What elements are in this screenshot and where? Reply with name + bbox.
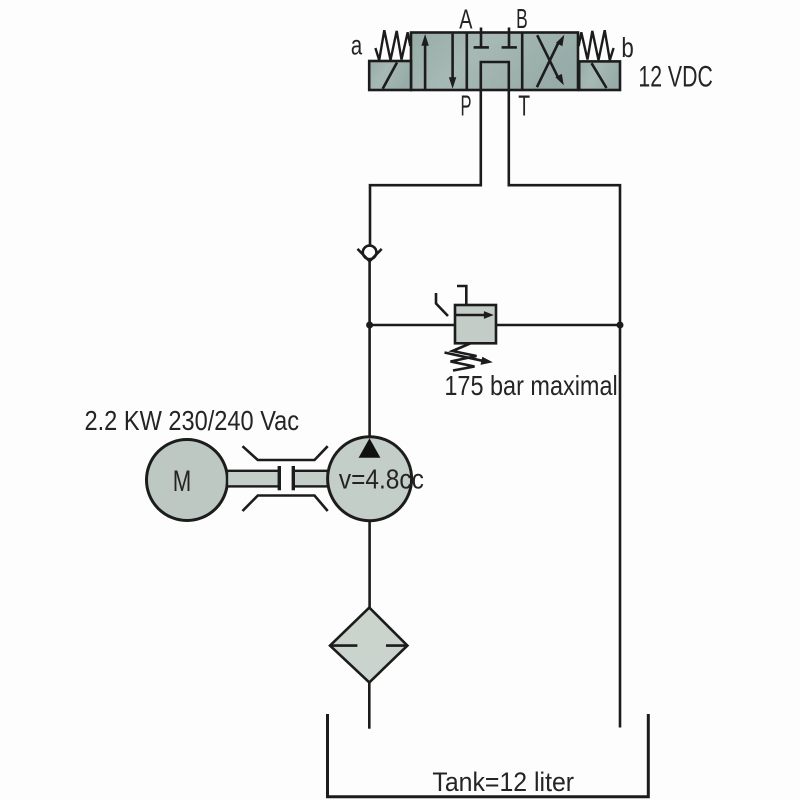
svg-text:B: B: [516, 3, 528, 34]
coupling upper bracket: [243, 446, 328, 460]
wire P down from valve: [370, 90, 481, 246]
valve center P-T connection: [481, 62, 509, 90]
svg-text:P: P: [461, 91, 472, 123]
svg-text:175 bar maximal: 175 bar maximal: [444, 370, 617, 401]
valve section divider right: [521, 33, 524, 91]
relief valve adjust arrow: [445, 353, 483, 361]
tank: [328, 714, 649, 797]
filter element dash left: [330, 644, 357, 647]
coupling bar right: [292, 466, 295, 490]
valve right position crossed arrow SE: [537, 35, 558, 78]
wire relief valve to right line: [496, 324, 620, 327]
valve section divider left: [465, 33, 468, 91]
wire pump to check valve: [368, 261, 371, 437]
svg-text:A: A: [459, 4, 472, 35]
svg-text:v=4.8cc: v=4.8cc: [339, 463, 424, 494]
svg-text:12 VDC: 12 VDC: [638, 60, 712, 93]
relief valve body: [455, 305, 496, 343]
spring a (left): [375, 30, 410, 60]
valve center B blocked stub: [508, 28, 511, 48]
relief valve spring: [451, 344, 477, 371]
coupling shaft left: [227, 471, 279, 487]
pump P1: [328, 437, 412, 521]
valve left position down arrow: [451, 34, 454, 79]
svg-text:Tank=12 liter: Tank=12 liter: [432, 767, 574, 797]
wire filter to tank: [368, 682, 371, 728]
relief valve flow arrow: [456, 314, 486, 317]
wire T down from valve to tank: [509, 90, 620, 728]
valve center A blocked stub: [480, 28, 483, 48]
coupling bar left: [278, 466, 281, 490]
svg-text:2.2 KW 230/240 Vac: 2.2 KW 230/240 Vac: [85, 405, 300, 436]
check valve: [363, 246, 377, 260]
coupling lower bracket: [243, 496, 328, 512]
wire pump to filter: [368, 521, 371, 608]
coupling shaft right: [293, 471, 327, 487]
node junction left: [366, 322, 373, 329]
node junction right: [617, 322, 624, 329]
svg-text:T: T: [518, 91, 530, 123]
valve right position crossed arrow NE: [537, 42, 559, 88]
filter F1: [330, 608, 407, 683]
solenoid b diagonal: [592, 63, 607, 88]
relief valve pilot line: [457, 286, 466, 305]
solenoid a diagonal: [383, 63, 397, 89]
valve 4/3 main body: [411, 33, 578, 91]
svg-text:a: a: [351, 29, 363, 60]
relief valve lever: [436, 293, 448, 316]
spring b (right): [579, 30, 614, 60]
filter element dash right: [386, 644, 407, 647]
motor M1: [147, 440, 228, 521]
svg-text:b: b: [621, 32, 633, 63]
solenoid b box: [579, 61, 620, 90]
valve left position up arrow: [424, 42, 427, 90]
wire junction to relief valve: [370, 324, 455, 327]
solenoid a box: [369, 61, 411, 90]
pump direction triangle: [359, 438, 381, 458]
svg-text:M: M: [173, 465, 192, 498]
